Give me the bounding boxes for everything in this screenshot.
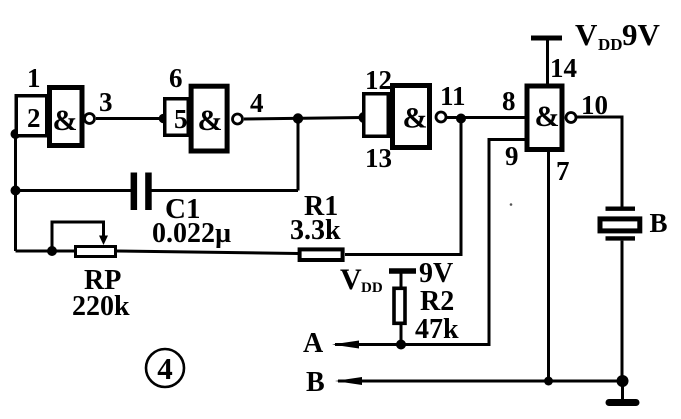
svg-text:A: A [303,328,324,359]
svg-text:B: B [306,367,325,398]
wire B net [338,380,623,383]
gate U1d output bubble [566,113,576,123]
svg-text:0.022µ: 0.022µ [152,218,231,249]
svg-text:13: 13 [365,143,392,173]
wire rail to RP [16,250,77,253]
wire R2 bottom to A net [400,325,403,345]
gate U1b input box (pins 6,5) [165,99,189,136]
node junction pin4 net [293,113,303,123]
gate U1a input box (pins 1,2) [16,96,47,136]
power VDD bar at pin 14 [531,36,562,41]
svg-text:12: 12 [365,65,392,95]
node junction rail at C1 wire [11,186,21,196]
gate U1c output bubble [436,112,446,122]
wire left feedback rail [14,133,17,251]
potentiometer RP body [76,247,116,257]
svg-text:9: 9 [505,141,519,171]
svg-text:&: & [403,102,428,135]
svg-text:4: 4 [157,351,173,386]
wire A net [335,140,525,345]
svg-text:8: 8 [502,86,516,116]
wire gate3 output to gate4 pin8 (pin 11 net) [447,116,525,119]
svg-text:&: & [198,104,223,137]
svg-text:&: & [535,100,560,133]
node junction at gate2 input [159,114,169,124]
wire gate4 output to buzzer (pin 10 net) [577,117,623,207]
gate U1a output bubble [85,114,95,124]
svg-text:V: V [340,263,362,296]
gate U1d body (pins 8,9,10) [527,86,562,150]
svg-text:&: & [53,104,78,137]
node junction buzzer/B [617,375,629,387]
wire R1 left to RP [117,251,298,254]
svg-text:DD: DD [598,35,623,54]
svg-text:220k: 220k [72,291,130,322]
svg-text:4: 4 [250,88,264,118]
RP wiper loop [52,222,104,251]
svg-text:9V: 9V [419,258,453,289]
gate U1a body [50,88,83,146]
svg-text:3.3k: 3.3k [290,215,341,246]
svg-text:2: 2 [27,103,41,133]
ground common bar [621,381,624,400]
node junction pin11 net [456,114,466,124]
wire C1 left lead [16,189,132,192]
svg-text:14: 14 [550,53,577,83]
svg-text:5: 5 [174,104,188,134]
gate U1c input box (pins 12,13) [364,94,389,137]
svg-text:11: 11 [440,81,466,111]
svg-text:1: 1 [27,63,41,93]
node junction rail top [11,129,21,139]
buzzer B bottom plate [606,236,636,240]
buzzer B body [600,219,640,231]
capacitor C1 [131,173,138,211]
node junction R2/A [396,340,406,350]
A arrowhead [332,341,359,349]
svg-text:9V: 9V [622,17,661,52]
figure number 4 [146,349,184,387]
wire gate2 output to gate3 input (pin 4 net) [244,118,363,120]
wire buzzer bottom down [621,241,624,381]
wire R2 top [400,271,403,287]
node junction RP wiper [47,246,57,256]
svg-text:R2: R2 [420,286,454,317]
wire pin11 net down to R1 [345,119,461,255]
gate U1c body [393,86,430,148]
wire gate1 output to gate2 input (pin 3 net) [96,117,163,120]
svg-text:B: B [650,208,668,238]
wire pin 7 down to B net [547,152,550,381]
wire pin4 net down to C1 [297,119,300,191]
resistor R2 power bar [389,268,416,274]
gate U1b body [191,86,227,151]
svg-text:47k: 47k [415,314,459,345]
gate U1b output bubble [233,114,243,124]
speck [510,203,513,206]
buzzer B top plate [606,206,636,210]
node junction pin7/B [544,377,553,386]
node junction at gate3 input [359,112,370,123]
svg-text:6: 6 [169,63,183,93]
resistor R1 [300,249,343,260]
svg-text:7: 7 [556,156,570,186]
svg-text:3: 3 [99,87,113,117]
svg-text:V: V [575,17,598,52]
B arrowhead [335,377,362,385]
resistor R2 [394,288,405,323]
wire pin14 to VDD [546,38,549,86]
wire C1 right lead [152,189,299,192]
svg-text:DD: DD [361,280,383,296]
